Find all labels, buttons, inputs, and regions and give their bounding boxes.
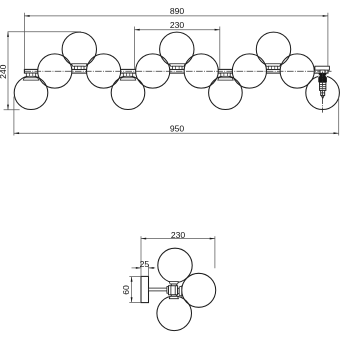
ball holder mount M2 (up) xyxy=(72,64,87,66)
dimension 240 line xyxy=(7,32,9,110)
svg-text:230: 230 xyxy=(171,230,186,240)
mid ball G11 xyxy=(232,54,266,88)
hub top cup xyxy=(169,282,178,284)
lower ball G7 xyxy=(209,76,243,110)
svg-text:890: 890 xyxy=(170,6,185,16)
socket centerline (dash-dot) xyxy=(322,72,324,113)
dimension 25 extension line xyxy=(148,265,150,276)
mid ball G9 xyxy=(184,54,218,88)
side view ball fills xyxy=(157,248,216,330)
lamp holder neck xyxy=(320,70,325,73)
right end mounting plate xyxy=(315,66,330,70)
dimension 60 extension lines xyxy=(129,276,141,278)
mid ball G6 xyxy=(136,54,170,88)
ball holder mount M3 (down) xyxy=(123,73,132,76)
side view top ball xyxy=(158,248,192,282)
upper ball G8 xyxy=(256,32,290,66)
upper ball G5 xyxy=(160,32,194,66)
svg-text:240: 240 xyxy=(0,64,8,79)
horizontal rail bar xyxy=(24,69,328,73)
lamp base tip xyxy=(321,95,324,98)
hub bottom cup xyxy=(171,295,176,297)
dimension 60 line xyxy=(131,277,133,303)
dimension 240 extension lines xyxy=(8,31,81,33)
dimension 950 extension lines xyxy=(13,97,15,136)
mid ball G3 xyxy=(87,54,121,88)
lamp base narrow section xyxy=(321,90,325,95)
svg-text:230: 230 xyxy=(170,20,185,30)
mid ball G12 xyxy=(280,54,314,88)
glass ball shades fills xyxy=(14,32,339,109)
wall mount plate xyxy=(141,276,149,302)
dimension 230 extension lines (top) xyxy=(134,27,136,70)
upper ball G2 xyxy=(62,32,96,66)
lower ball G0 xyxy=(14,76,48,110)
mid ball G1 xyxy=(38,54,72,88)
side view bottom ball xyxy=(157,296,192,331)
dimension 230 extension lines (side) xyxy=(140,236,142,276)
dimension 950 line xyxy=(14,132,339,134)
ball holder mount M6 (up) xyxy=(265,64,280,66)
side view right ball xyxy=(182,273,216,307)
lamp base thread xyxy=(320,82,326,90)
ball holder mount M4 (up) xyxy=(170,64,185,66)
support arm xyxy=(149,288,168,291)
lower ball G13 (with lamp socket) xyxy=(306,76,340,110)
bar centerline (dash-dot) xyxy=(24,70,331,72)
svg-text:950: 950 xyxy=(170,124,185,134)
svg-text:60: 60 xyxy=(121,285,131,295)
dimension 230 line (top) xyxy=(135,29,220,31)
svg-text:25: 25 xyxy=(140,259,150,269)
ball holder mount M1 (down) xyxy=(26,73,35,76)
hub block xyxy=(169,286,178,295)
dimension 25 lines xyxy=(132,267,142,269)
hub right cup xyxy=(178,288,180,293)
dimension 230 line (side) xyxy=(141,238,215,240)
dimension 890 line xyxy=(24,15,328,17)
arm flange xyxy=(167,287,169,294)
ball holder mount M5 (down) xyxy=(221,73,230,76)
lamp socket body (black) xyxy=(318,73,327,82)
lower ball G4 xyxy=(111,76,145,110)
dimension 890 extension lines xyxy=(23,13,25,69)
